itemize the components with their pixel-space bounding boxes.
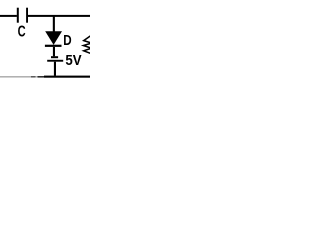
wire diode-to-battery stem [53,47,55,56]
wire bottom rail dash segment 2 [38,76,45,78]
wire bottom rail dash segment 1 [31,76,36,77]
diode D cathode bar [45,45,62,47]
wire top rail [28,15,90,17]
wire bottom rail faint left segment [0,76,31,77]
battery 5V short plate [51,56,58,58]
diode D triangle [45,31,62,45]
battery 5V long plate [47,60,63,62]
svg-text:5V: 5V [65,53,82,69]
svg-text:C: C [18,24,26,41]
wire bottom rail black segment [44,76,90,78]
wire battery-to-ground stem [54,62,56,76]
capacitor C left plate [17,8,19,23]
wire diode stem upper [53,17,55,32]
wire top-left input [0,15,17,17]
resistor R zigzag (clipped at right edge) [83,35,92,54]
svg-text:D: D [63,32,72,49]
capacitor C right plate [26,8,28,23]
wire bottom rail light gap segment [36,76,38,77]
